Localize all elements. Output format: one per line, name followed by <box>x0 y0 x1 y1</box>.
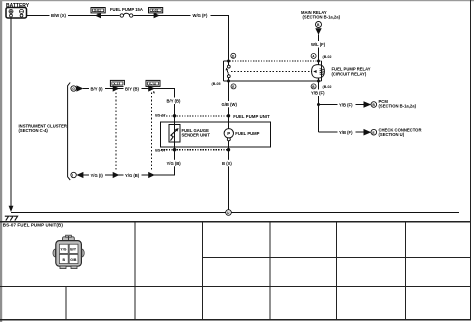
svg-text:G/B (W): G/B (W) <box>222 102 238 107</box>
svg-text:Y/B (F): Y/B (F) <box>311 91 325 96</box>
svg-text:Y/B (F): Y/B (F) <box>339 102 353 107</box>
fuse FUEL PUMP 15A <box>110 7 143 18</box>
instrument cluster brace <box>68 83 71 181</box>
ground terminal circle U <box>226 210 232 216</box>
svg-text:FUEL PUMP 15A: FUEL PUMP 15A <box>110 7 143 12</box>
wire label W/L (F) <box>310 41 328 48</box>
svg-text:G/B: G/B <box>70 258 77 262</box>
svg-text:(B-02: (B-02 <box>323 85 332 89</box>
svg-text:BS-07: BS-07 <box>155 148 165 152</box>
svg-text:I: I <box>72 174 73 178</box>
svg-text:Y/B (F): Y/B (F) <box>339 130 353 135</box>
wire label W/G (F) <box>191 12 211 19</box>
svg-text:(SECTION C-4): (SECTION C-4) <box>19 128 49 133</box>
ground bus <box>11 212 459 214</box>
svg-text:B/W (X): B/W (X) <box>51 13 66 18</box>
check connector reference arrow <box>364 127 422 137</box>
svg-text:E: E <box>232 85 234 89</box>
wire label B/Y (B) <box>124 85 142 92</box>
wire main relay to fuel pump relay coil <box>318 35 320 62</box>
svg-text:W/L (F): W/L (F) <box>311 42 326 47</box>
wire cluster to sender (top row) <box>83 89 175 119</box>
wire relay coil to PCM / check connector <box>318 81 320 132</box>
svg-text:BS-07 FUEL PUMP UNIT(B): BS-07 FUEL PUMP UNIT(B) <box>3 223 64 228</box>
fuel gauge sender unit (variable resistor) <box>169 116 210 150</box>
wire label B/Y (I) <box>89 85 105 92</box>
fuel pump relay: coil <box>312 61 325 81</box>
svg-text:(CIRCUIT RELAY): (CIRCUIT RELAY) <box>332 72 367 77</box>
svg-text:X-01: X-01 <box>152 9 159 13</box>
wire label Y/B (F) below relay <box>310 90 328 97</box>
svg-text:(SECTION B-1a,2a): (SECTION B-1a,2a) <box>303 14 341 19</box>
page top grey line <box>0 0 474 1</box>
wire label Y/B (F) (PCM branch) <box>338 101 356 108</box>
wire label Y/G (I) <box>89 172 105 179</box>
ground arrowhead <box>9 206 14 212</box>
svg-text:W/G (F): W/G (F) <box>193 13 208 18</box>
svg-text:X-13: X-13 <box>113 82 120 86</box>
wire relay switch to fuel pump <box>228 81 230 119</box>
ground symbol <box>5 216 18 220</box>
svg-text:Y/G: Y/G <box>60 248 66 252</box>
table top rule <box>0 221 471 223</box>
fuel pump relay: bottom-left pin E, label (B-05 <box>212 80 237 90</box>
wire label B/W (X) <box>50 12 69 19</box>
svg-text:Y/G (I): Y/G (I) <box>91 173 104 178</box>
connector X-01 (right of fuse) <box>149 8 163 19</box>
wire fuel pump to ground terminal <box>228 150 230 210</box>
wire label B (X) <box>221 160 236 167</box>
svg-text:P: P <box>227 131 230 136</box>
svg-text:B/Y (I): B/Y (I) <box>91 86 104 91</box>
table caption BS-07 FUEL PUMP UNIT(B) <box>3 223 64 228</box>
fuel pump relay box <box>224 61 322 81</box>
svg-text:Y/G (B): Y/G (B) <box>125 173 140 178</box>
junction to PCM branch <box>317 103 320 106</box>
table grid <box>0 222 471 320</box>
instrument cluster bottom pin (gauge return) <box>71 172 84 178</box>
connector X-14 <box>146 80 160 94</box>
main relay reference <box>301 10 341 35</box>
svg-text:B (X): B (X) <box>222 161 232 166</box>
wire PCM branch <box>319 104 364 106</box>
battery <box>6 3 30 18</box>
connector arrow X-13 (bottom row) <box>113 172 120 178</box>
svg-text:B/Y (B): B/Y (B) <box>167 99 181 104</box>
wire label Y/G (B) <box>124 172 142 179</box>
wire label Y/G (B) vertical riser <box>165 160 183 167</box>
wire label Y/B (F) (check branch) <box>338 129 356 136</box>
svg-text:(SECTION U): (SECTION U) <box>379 132 405 137</box>
fuel pump unit connector face view <box>53 235 84 268</box>
svg-text:X-14: X-14 <box>149 82 156 86</box>
svg-text:(B-05: (B-05 <box>212 82 221 86</box>
page left grey border <box>0 0 2 322</box>
fuel pump relay: bottom-right pin, label (B-02 <box>311 80 331 90</box>
svg-text:(B-02: (B-02 <box>323 55 332 59</box>
wire sender to cluster (bottom row) <box>83 150 175 175</box>
fuel pump unit labels BS-07 <box>155 114 270 153</box>
page right border <box>470 0 472 320</box>
svg-text:B/Y: B/Y <box>70 248 77 252</box>
svg-text:(SECTION B-1a,2a): (SECTION B-1a,2a) <box>379 104 417 109</box>
svg-text:Y/G (B): Y/G (B) <box>167 161 182 166</box>
svg-text:BS-07: BS-07 <box>155 114 165 118</box>
fuel pump relay: top-right pin, label (B-02 <box>311 54 331 63</box>
fuel pump motor <box>224 116 260 150</box>
wire battery to fuse (top feed) <box>27 16 229 62</box>
wire check connector branch <box>319 131 364 133</box>
fuel pump unit: pin junction dots <box>173 114 230 151</box>
instrument cluster reference <box>19 124 67 133</box>
fuel pump relay name <box>332 67 371 77</box>
connector arrow X-14 (bottom row) <box>148 172 155 178</box>
connector X-13 separator (dotted) <box>115 93 117 172</box>
PCM reference arrow <box>364 99 417 109</box>
fuel pump relay: switch contacts <box>226 61 231 81</box>
svg-text:SENDER UNIT: SENDER UNIT <box>182 132 211 137</box>
fuel pump unit box <box>161 116 271 150</box>
wire label G/B (W) <box>220 101 239 107</box>
svg-text:X-01: X-01 <box>94 9 101 13</box>
connector X-14 separator (dotted) <box>151 93 153 172</box>
instrument cluster top pin (gauge feed) <box>71 85 84 91</box>
connector X-01 (left of fuse) <box>91 8 105 19</box>
wire label B/Y (B) vertical drop <box>165 98 183 105</box>
svg-text:FUEL PUMP: FUEL PUMP <box>235 131 259 136</box>
svg-text:G: G <box>72 87 75 91</box>
wire battery negative to ground bus <box>10 18 12 206</box>
connector X-13 <box>110 80 124 91</box>
fuel pump relay: top-left pin D <box>227 53 236 62</box>
svg-text:FUEL PUMP UNIT: FUEL PUMP UNIT <box>233 114 270 119</box>
svg-text:B/Y (B): B/Y (B) <box>125 86 139 91</box>
